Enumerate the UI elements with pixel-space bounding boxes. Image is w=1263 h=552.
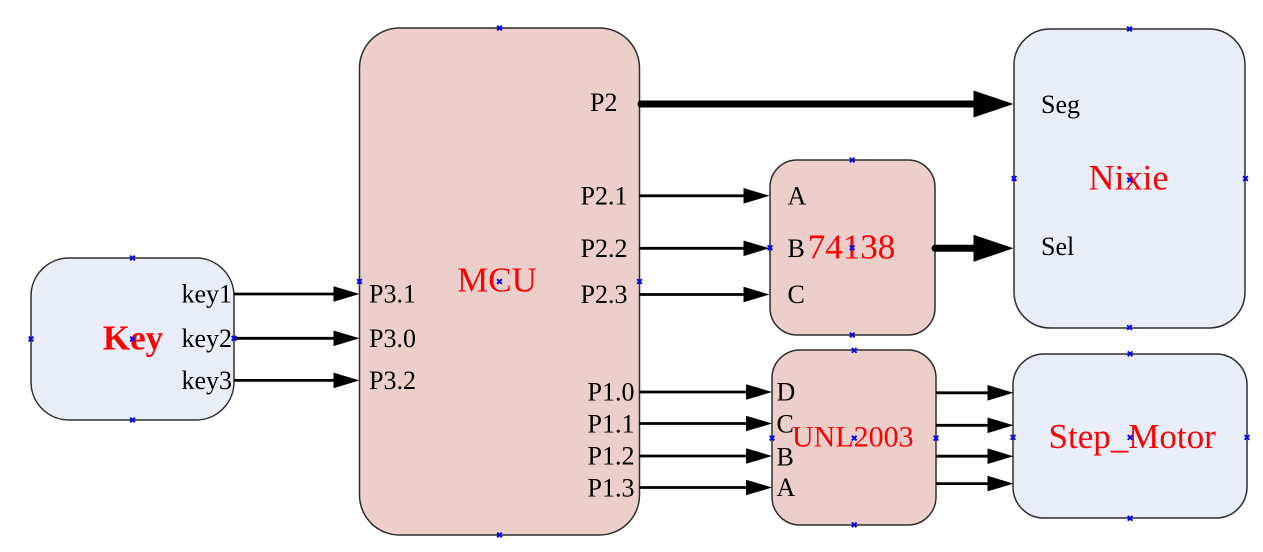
wire P1.0 to D: [640, 384, 773, 400]
svg-text:B: B: [788, 234, 805, 263]
node markers MCU: [357, 26, 642, 538]
wire P2 to Seg (bus): [641, 91, 1014, 118]
wire P2.2 to B: [640, 241, 770, 257]
svg-text:P2.3: P2.3: [581, 280, 628, 309]
svg-text:P2.1: P2.1: [581, 181, 628, 210]
wire 74138 to Sel (bus): [935, 235, 1014, 262]
svg-text:B: B: [777, 443, 794, 472]
svg-text:P1.3: P1.3: [588, 474, 635, 503]
wire P1.2 to B: [640, 448, 773, 464]
svg-text:Sel: Sel: [1041, 232, 1074, 261]
svg-text:key3: key3: [181, 366, 232, 395]
wire key2 to P3.0: [234, 331, 360, 347]
node markers Key: [29, 256, 237, 423]
node markers UNL2003: [770, 348, 939, 527]
node markers Step_Motor: [1011, 351, 1250, 520]
svg-text:key1: key1: [181, 280, 232, 309]
svg-text:Seg: Seg: [1041, 90, 1080, 119]
wire P2.3 to C: [640, 287, 770, 303]
wire key3 to P3.2: [234, 373, 360, 389]
block MCU: [360, 28, 640, 535]
block Nixie: [1014, 29, 1245, 328]
node markers Nixie: [1012, 27, 1248, 330]
svg-text:P2: P2: [590, 88, 617, 117]
wire UNL2003 out1: [936, 385, 1014, 401]
svg-text:P3.1: P3.1: [369, 280, 416, 309]
block UNL2003: [772, 350, 936, 525]
wire UNL2003 out4: [936, 476, 1014, 492]
wire UNL2003 out3: [936, 448, 1014, 464]
svg-text:P3.0: P3.0: [369, 324, 416, 353]
wire UNL2003 out2: [936, 418, 1014, 434]
svg-text:C: C: [777, 410, 794, 439]
svg-text:P1.2: P1.2: [588, 442, 635, 471]
svg-text:A: A: [788, 181, 807, 210]
svg-text:A: A: [777, 473, 796, 502]
node markers 74138: [768, 158, 855, 338]
svg-text:P1.0: P1.0: [588, 378, 635, 407]
svg-text:D: D: [777, 378, 796, 407]
block Key: [31, 258, 234, 420]
wire key1 to P3.1: [234, 286, 360, 302]
wire P2.1 to A: [640, 188, 770, 204]
svg-text:P3.2: P3.2: [369, 366, 416, 395]
svg-text:key2: key2: [181, 324, 232, 353]
block 74138: [770, 160, 935, 335]
svg-text:C: C: [788, 280, 805, 309]
wire P1.3 to A: [640, 480, 773, 496]
svg-text:P1.1: P1.1: [588, 410, 635, 439]
block Step_Motor: [1013, 354, 1247, 518]
svg-text:P2.2: P2.2: [581, 234, 628, 263]
wire P1.1 to C: [640, 416, 773, 432]
